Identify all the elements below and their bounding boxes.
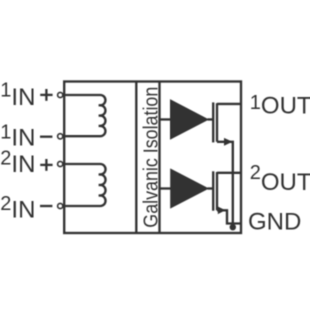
svg-text:1IN: 1IN xyxy=(0,79,35,111)
Q1 source arrow xyxy=(224,138,233,146)
plus sign of 1IN+ xyxy=(40,94,52,96)
svg-text:GND: GND xyxy=(248,209,301,236)
wire amp A1 output to Q1 gate xyxy=(208,118,214,120)
wire barrier to amp A1 input xyxy=(160,118,171,120)
pin circle 1IN+ xyxy=(58,92,63,97)
coil L2 cusp dash 2 xyxy=(99,184,101,186)
wire Q2 source to GND pin xyxy=(217,210,241,223)
galvanic isolation barrier right line xyxy=(158,82,160,234)
coil L1 cusp dash 1 xyxy=(99,104,101,106)
wire Q2 drain to 2OUT xyxy=(217,172,241,174)
pin circle 2IN- xyxy=(58,203,63,208)
pin circle 2IN+ xyxy=(58,161,63,166)
coil L2 cusp dash 3 xyxy=(99,194,101,196)
op-amp A1 xyxy=(170,99,209,140)
minus sign of 1IN- xyxy=(40,136,52,138)
transistor Q2 channel bar xyxy=(216,172,218,210)
svg-text:1OUT: 1OUT xyxy=(250,92,310,120)
coil L1 cusp dash 3 xyxy=(99,125,101,127)
transistor Q1 gate bar xyxy=(212,102,214,142)
transistor Q1 channel bar xyxy=(216,103,218,142)
svg-text:Galvanic Isolation: Galvanic Isolation xyxy=(141,87,163,228)
transistor Q2 gate bar xyxy=(212,171,214,210)
svg-text:2IN: 2IN xyxy=(0,193,35,224)
plus sign of 2IN+ xyxy=(40,164,52,166)
wire barrier to amp A2 input xyxy=(160,187,172,189)
pin circle 1IN- xyxy=(58,134,63,139)
wire Q1 source down to GND rail xyxy=(217,142,233,227)
svg-text:2IN: 2IN xyxy=(0,147,35,178)
transformer coil L1 with pin wires xyxy=(63,95,106,136)
GND junction dot xyxy=(230,224,236,230)
transformer coil L2 with pin wires xyxy=(63,164,106,206)
coil L1 cusp dash 2 xyxy=(99,114,101,116)
wire amp A2 output to Q2 gate xyxy=(208,187,214,189)
op-amp A2 xyxy=(170,168,209,208)
coil L2 cusp dash 1 xyxy=(99,173,101,175)
outer box xyxy=(64,82,241,234)
galvanic isolation barrier left line xyxy=(135,82,137,234)
wire Q1 drain to 1OUT xyxy=(217,103,241,105)
minus sign of 2IN- xyxy=(40,205,52,207)
Q2 source arrow xyxy=(218,207,226,215)
svg-text:2OUT: 2OUT xyxy=(250,162,310,196)
